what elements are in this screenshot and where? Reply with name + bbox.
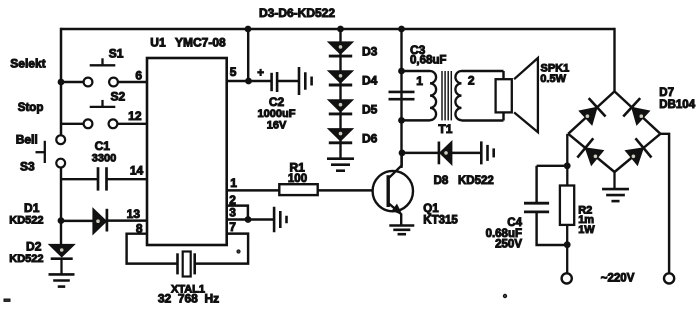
svg-text:D2: D2 xyxy=(26,239,42,253)
transformer T1 secondary winding xyxy=(455,71,461,120)
wire: crystal to pin 8 xyxy=(127,234,177,264)
capacitor C2 xyxy=(272,72,278,92)
label: D3 xyxy=(362,45,378,59)
wire: S2 to pin 12 xyxy=(117,123,147,125)
label: pin 5 xyxy=(230,65,237,79)
label: Bell xyxy=(16,133,38,147)
svg-text:D8: D8 xyxy=(434,175,449,187)
svg-text:T1: T1 xyxy=(438,122,452,136)
terminal: AC left xyxy=(562,273,572,283)
ground at pin 3 (sideways) xyxy=(274,207,286,233)
svg-text:S2: S2 xyxy=(111,90,126,104)
label: C4 value xyxy=(486,217,523,250)
wire: R1 to Q1 base xyxy=(318,189,387,191)
label: T1 xyxy=(438,122,452,136)
capacitor C3 xyxy=(389,92,415,99)
wire: junction to C4 top xyxy=(537,165,568,167)
label: ~220V xyxy=(601,273,635,285)
svg-text:S3: S3 xyxy=(20,160,35,174)
wire: C2 branch from top rail xyxy=(247,29,249,81)
svg-text:D3: D3 xyxy=(362,45,378,59)
speck near IC bottom xyxy=(237,250,240,253)
label: D5 xyxy=(362,102,378,116)
terminal: AC right xyxy=(664,273,674,283)
ground below Q1 xyxy=(389,226,414,235)
label: pin 7 xyxy=(229,220,236,234)
wire: D2 to ground xyxy=(60,259,62,275)
svg-text:~220V: ~220V xyxy=(601,273,635,285)
label: Selekt xyxy=(10,57,45,71)
wire: pin 3 to ground xyxy=(248,218,274,220)
wire: S1 to pin 6 xyxy=(118,81,147,83)
switch S3 bottom contact xyxy=(56,159,65,168)
wire: bridge right vertex to terminal xyxy=(660,134,669,273)
svg-text:D1: D1 xyxy=(24,201,40,215)
label: R2 value xyxy=(578,204,595,236)
switch S1 right contact xyxy=(109,78,118,87)
bridge diode D7d (bottom-right) xyxy=(625,138,651,165)
svg-text:KD522: KD522 xyxy=(458,175,494,187)
ground below bridge xyxy=(602,189,629,201)
svg-text:KD522: KD522 xyxy=(9,253,43,265)
svg-text:S1: S1 xyxy=(109,46,124,60)
node: junction top rail at D3 branch xyxy=(337,26,344,33)
svg-text:Selekt: Selekt xyxy=(10,57,45,71)
wire: junction to C2 xyxy=(249,80,272,82)
label: pin 14 xyxy=(130,163,144,177)
svg-text:1: 1 xyxy=(230,176,237,190)
label: SPK1 xyxy=(540,63,569,86)
ground below D2 xyxy=(49,274,75,286)
capacitor C1 xyxy=(98,167,107,190)
IC U1 YMC7-08 body xyxy=(147,58,227,245)
label: pin 3 xyxy=(229,206,236,220)
svg-text:32 768 Hz: 32 768 Hz xyxy=(158,291,219,305)
label: D6 xyxy=(362,131,378,145)
diode D3 xyxy=(328,42,353,56)
svg-text:D7: D7 xyxy=(659,87,674,99)
node: junction top rail at C3 branch xyxy=(398,26,405,33)
svg-text:Q1: Q1 xyxy=(423,203,439,215)
svg-text:3300: 3300 xyxy=(92,153,116,165)
svg-text:6: 6 xyxy=(135,69,142,83)
wire: T1 primary bottom xyxy=(402,119,431,121)
ground below D6 xyxy=(327,159,354,171)
diode D8 xyxy=(439,141,452,165)
label: pin 1 xyxy=(230,176,237,190)
transformer T1 primary winding xyxy=(430,71,436,120)
speck bottom-center xyxy=(503,294,506,297)
transistor Q1 base bar xyxy=(387,175,390,207)
switch S2 actuator xyxy=(90,100,116,107)
label: pin 6 xyxy=(135,69,142,83)
diode D4 xyxy=(328,71,353,85)
node: junction D1 row xyxy=(58,217,65,224)
label: D4 xyxy=(362,74,378,88)
wire: bridge edge BL xyxy=(568,134,614,172)
wire: Selekt row to S1 left contact xyxy=(61,81,84,83)
switch S1 left contact xyxy=(84,78,93,87)
label: D2 xyxy=(9,239,43,264)
bridge diode D7b (right-top) xyxy=(623,98,649,125)
svg-text:C1: C1 xyxy=(95,139,111,153)
ground at C2 (sideways) xyxy=(299,67,312,95)
label: C3 value xyxy=(410,43,446,67)
capacitor C4 xyxy=(524,203,549,212)
label: D3-D6-KD522 xyxy=(259,6,335,20)
node: junction C3 top xyxy=(398,68,405,75)
svg-text:U1: U1 xyxy=(150,35,166,49)
label: C2 plus xyxy=(257,67,264,79)
diode D6 xyxy=(328,129,353,143)
bridge diode D7c (bottom-left) xyxy=(577,138,603,165)
wire: S2 row from bus xyxy=(61,123,84,125)
speaker SPK1 driver xyxy=(496,79,512,112)
svg-text:Bell: Bell xyxy=(16,133,38,147)
svg-text:0,68uF: 0,68uF xyxy=(410,54,446,66)
wire: bridge edge TR xyxy=(615,91,661,133)
wire: top rail down to bridge xyxy=(613,28,615,92)
label: R1 value xyxy=(288,161,307,185)
label: pin 2 xyxy=(229,193,236,207)
speck bottom-left xyxy=(4,299,10,301)
transistor Q1 collector xyxy=(389,153,402,178)
svg-text:1: 1 xyxy=(416,74,423,88)
wire: bridge bottom to ground xyxy=(613,172,615,189)
node: junction C3 bottom xyxy=(398,117,405,124)
wire: C2 to ground xyxy=(277,80,299,82)
label: D8 KD522 xyxy=(434,175,494,187)
switch S2 left contact xyxy=(84,119,93,128)
svg-text:100: 100 xyxy=(288,173,307,185)
wire: bridge left vertex down xyxy=(566,134,568,186)
diode D1 xyxy=(93,208,107,234)
svg-text:1W: 1W xyxy=(578,224,595,236)
wire: C4 top lead xyxy=(535,166,537,203)
wire: pin 5 stub xyxy=(227,80,249,82)
resistor R2 xyxy=(560,186,574,225)
svg-text:DB104: DB104 xyxy=(659,99,695,111)
label: S1 xyxy=(109,46,124,60)
ground at D8 (sideways) xyxy=(481,141,493,164)
wire: C1 to pin 14 xyxy=(107,178,148,180)
wire: bus below S3 xyxy=(60,168,62,246)
node: junction R2 top xyxy=(564,162,571,169)
node: junction top rail at C2 branch xyxy=(245,26,252,33)
wire: D3 chain vertical xyxy=(339,29,341,159)
wire: pin 2 stub xyxy=(227,206,248,220)
label: T1 winding 1 xyxy=(416,74,423,88)
svg-text:D4: D4 xyxy=(362,74,378,88)
node: junction D8 row xyxy=(399,150,406,157)
wire: left bus vertical xyxy=(60,28,63,135)
label: XTAL1 xyxy=(158,283,219,305)
switch S3 actuator xyxy=(36,141,45,163)
wire: C3 branch vertical xyxy=(400,29,402,168)
wire: T1 primary top xyxy=(402,70,431,72)
speaker SPK1 horn xyxy=(514,58,538,132)
svg-text:14: 14 xyxy=(130,163,144,177)
label: D1 xyxy=(9,201,43,226)
svg-text:D6: D6 xyxy=(362,131,378,145)
bridge diode D7a (left-top) xyxy=(579,98,605,125)
svg-text:1000uF: 1000uF xyxy=(258,108,296,120)
resistor R1 xyxy=(279,184,317,195)
switch S3 top contact xyxy=(56,135,65,144)
label: T1 winding 2 xyxy=(468,73,475,87)
svg-text:250V: 250V xyxy=(495,239,522,251)
transistor Q1 body xyxy=(373,171,413,211)
wire: pin 1 to R1 xyxy=(227,189,280,191)
label: pin 13 xyxy=(127,207,141,221)
svg-text:13: 13 xyxy=(127,207,141,221)
node: junction pin 2/3 xyxy=(245,216,252,223)
wire: S3 bus to C1 xyxy=(61,178,98,180)
wire: top supply rail xyxy=(61,28,615,31)
label: S2 xyxy=(111,90,126,104)
label: U1 YMC7-08 xyxy=(150,35,226,49)
node: junction R2 bottom xyxy=(564,241,571,248)
svg-text:KT315: KT315 xyxy=(423,215,458,227)
svg-text:D3-D6-KD522: D3-D6-KD522 xyxy=(259,6,335,20)
wire: C4 bottom lead xyxy=(537,212,568,245)
wire: D8 to ground xyxy=(452,152,481,154)
svg-text:7: 7 xyxy=(229,220,236,234)
svg-text:12: 12 xyxy=(128,109,142,123)
label: S3 xyxy=(20,160,35,174)
label: D7 DB104 xyxy=(659,87,695,111)
label: C1 value xyxy=(92,139,116,165)
node: junction pin 5 / C2 xyxy=(245,78,252,85)
diode D2 xyxy=(49,244,75,258)
svg-text:KD522: KD522 xyxy=(9,214,43,226)
svg-text:D5: D5 xyxy=(362,102,378,116)
label: Stop xyxy=(18,102,44,114)
node: junction Selekt row xyxy=(58,79,65,86)
transformer T1 core xyxy=(442,71,451,120)
wire: D1 to pin 13 xyxy=(107,219,147,221)
svg-text:YMC7-08: YMC7-08 xyxy=(175,35,226,49)
crystal XTAL1 xyxy=(178,252,195,277)
svg-text:16V: 16V xyxy=(267,119,287,131)
diode D5 xyxy=(328,100,353,114)
wire: pin 7 to crystal xyxy=(195,234,248,264)
switch S2 right contact xyxy=(109,119,118,128)
wire: R2 bottom to terminal xyxy=(566,225,568,273)
transistor Q1 emitter xyxy=(389,204,401,226)
switch S1 actuator xyxy=(90,58,116,65)
svg-text:0.5W: 0.5W xyxy=(540,73,566,85)
wire: secondary to speaker xyxy=(462,71,504,121)
wire: bridge edge BR xyxy=(615,134,661,172)
label: pin 12 xyxy=(128,109,142,123)
svg-text:2: 2 xyxy=(468,73,475,87)
wire: junction to D8 xyxy=(402,152,439,154)
label: Q1 KT315 xyxy=(423,203,458,227)
wire: pin 3 stub xyxy=(227,218,248,220)
svg-text:Stop: Stop xyxy=(18,102,44,114)
svg-text:+: + xyxy=(257,67,264,79)
label: C2 value xyxy=(258,95,296,132)
label: pin 8 xyxy=(136,221,143,235)
wire: bridge edge TL xyxy=(568,91,614,133)
wire: bus to D1 xyxy=(61,220,93,222)
svg-text:C2: C2 xyxy=(269,95,285,109)
svg-text:3: 3 xyxy=(229,206,236,220)
svg-text:5: 5 xyxy=(230,65,237,79)
